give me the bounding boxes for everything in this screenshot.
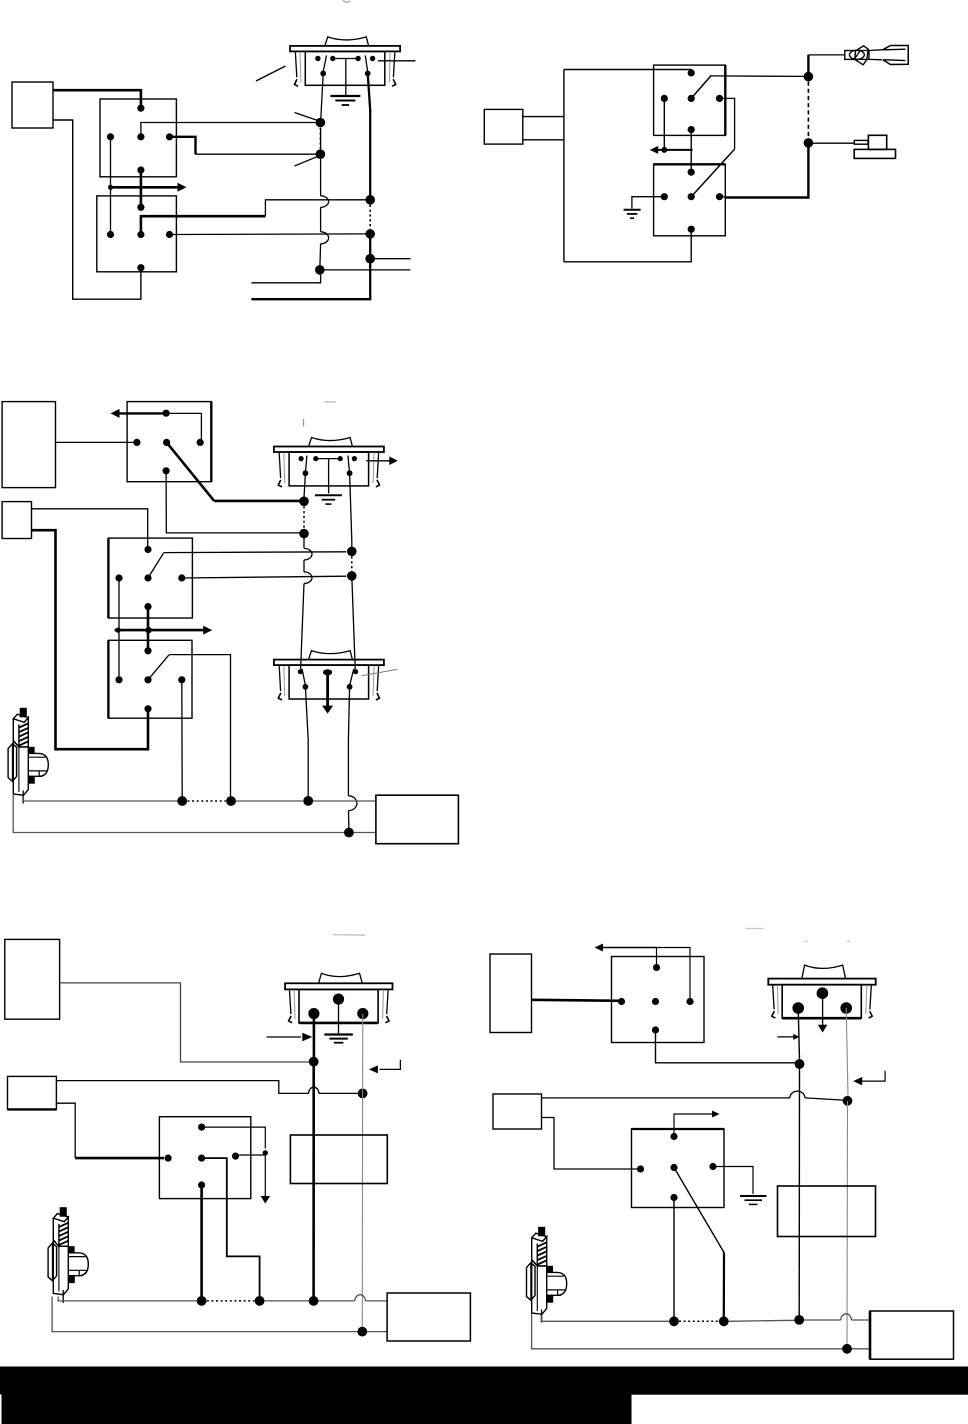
wire module4 to node [60, 983, 309, 1062]
wire1 D4 end [365, 1300, 387, 1302]
wire node5 stub left [251, 275, 320, 283]
wire battery to relay1 coil [53, 90, 141, 106]
node D4-6 [357, 1327, 367, 1337]
wire feed to relay K7 [32, 530, 149, 749]
wire feed5 to K10 [542, 1118, 641, 1170]
wire K7 common down [181, 680, 183, 797]
wire left column mid2 [320, 207, 322, 232]
wire hop D4 a [309, 1087, 319, 1093]
rocker SW2 pin bridge [316, 458, 340, 460]
wire SW5 left col lower [798, 1064, 800, 1316]
node D4-5 [309, 1296, 319, 1306]
wire2 D4 [52, 1297, 387, 1332]
wire battery stubs [523, 116, 564, 118]
wire K5 to node2 [166, 471, 300, 533]
wire K8 NO down [202, 1158, 260, 1296]
wire hop D3 a [304, 548, 312, 560]
arrow relay actuation [109, 186, 178, 189]
arrow into SW4 [267, 1036, 302, 1038]
wire SW5 right col [846, 1008, 848, 1096]
arrow rocker SW2 [366, 460, 391, 462]
rocker SW1 pins [315, 56, 320, 61]
dotted link right column [369, 205, 371, 229]
wire feed4 upper b [319, 1092, 358, 1094]
node D3-5 [303, 796, 313, 806]
wire SW5 left col [798, 1008, 799, 1060]
lock module box D5 [778, 1186, 876, 1237]
wire feed to relay K6 [32, 509, 148, 547]
node D3-1 [299, 497, 309, 507]
dotted wire1 D5 [679, 1320, 719, 1322]
wire1 D3 left [23, 796, 178, 801]
relay K9 pins [653, 964, 660, 971]
feed box 4 [8, 1076, 57, 1109]
wire SW2 right drop [350, 473, 352, 547]
rocker SW1 left contact [323, 56, 326, 72]
node D3-4 [347, 571, 357, 581]
arrow into SW4 right [369, 1065, 378, 1073]
node junction 5 [315, 265, 325, 275]
rocker SW4 ground lead [338, 999, 340, 1033]
dotted link D3 left [303, 506, 305, 529]
ground symbol SW1 [330, 95, 360, 97]
relay K1 box [100, 99, 176, 177]
wire feed5 long [542, 1097, 790, 1099]
wire SW2 left drop [304, 473, 305, 498]
relay K4 box [654, 164, 726, 236]
node D3-8 [344, 828, 354, 838]
wire right col to SW3 [352, 576, 355, 669]
ground symbol SW4 [324, 1033, 353, 1035]
wire to valet switch [808, 142, 854, 144]
wire relay4 ground lead [632, 197, 664, 209]
node junction 2 [316, 149, 326, 159]
rocker SW3 center pivot [323, 669, 332, 675]
wire1 D4 left [58, 1297, 197, 1301]
rocker switch SW4 body [285, 973, 392, 1023]
interface box D4 [387, 1293, 470, 1341]
ground symbol SW2 [315, 494, 342, 496]
wire relay3 arm to key node [711, 75, 804, 78]
arrow rocker SW3 down [326, 672, 329, 706]
rocker SW5 pins [817, 987, 829, 999]
wire relay1 common [170, 137, 196, 154]
wire relay3 common hook [720, 98, 735, 149]
wire node to relay4 common [725, 148, 808, 198]
footer bar full [0, 1367, 968, 1395]
callout line rocker [256, 66, 286, 81]
node D4-4 [255, 1296, 265, 1306]
wire K8 bottom down [200, 1185, 203, 1296]
node D5-3 [669, 1316, 679, 1326]
rocker switch SW5 body [768, 965, 875, 1018]
arrow relay K5 [118, 412, 167, 414]
wire right column upper [368, 73, 371, 195]
wire2 D3 [13, 795, 376, 833]
dotted wire1 D4 [207, 1300, 255, 1302]
wire feed4 lower [56, 1103, 75, 1158]
node D4-1 [309, 1057, 319, 1067]
rocker SW2 pins [299, 456, 304, 461]
wire relay2 NO to node [141, 216, 266, 234]
arrow relay K6K7 [115, 629, 204, 632]
wire SW4 left col [313, 1014, 316, 1058]
relay K5 pins [163, 410, 170, 417]
node junction 4 [365, 229, 375, 239]
mechanical link relays 2 [690, 130, 692, 173]
rocker SW3 pins [298, 669, 303, 674]
relay K8 pins [198, 1124, 205, 1131]
arrow K8 down [264, 1153, 266, 1197]
ignition key symbol [845, 46, 908, 65]
node junction 6 [365, 254, 375, 264]
wire K8 common stub [236, 1153, 266, 1155]
relay K9 box [612, 957, 705, 1043]
relay K5 arm to node [167, 442, 215, 501]
relay K7 box [108, 640, 192, 718]
arrow rocker SW5 down [822, 993, 824, 1025]
relay K6 box [108, 538, 192, 618]
wire K6 common to node4 [182, 576, 346, 578]
feed box [2, 502, 31, 539]
wire SW3 right down [348, 687, 349, 796]
node junction 3 [365, 195, 375, 205]
wire left col mid [303, 560, 305, 572]
wire hop over node wire B [321, 232, 329, 244]
wire battery to relay4 pin [564, 229, 691, 262]
rocker SW2 left contact [306, 456, 307, 471]
arrow into SW5 right [853, 1077, 862, 1086]
relay K5 box [127, 402, 211, 482]
node D5-4 [719, 1316, 729, 1326]
rocker switch SW1 body [290, 37, 400, 86]
node D3-2 [299, 529, 309, 539]
wire1 D4 mid [265, 1300, 309, 1302]
wire hop D3 c [348, 796, 357, 811]
wire SW5 right col lower [846, 1101, 849, 1345]
wire K5 hook [166, 413, 201, 442]
wire SW4 left col lower [312, 1062, 315, 1297]
mechanical link relays [140, 170, 143, 207]
mechanical link K6 K7 [147, 607, 150, 651]
scan mark D4 [333, 934, 365, 937]
relay K3 pins [688, 69, 695, 76]
arrow relay actuation 2 [656, 149, 693, 151]
relay K7 pins [144, 647, 151, 654]
scan mark D5 [746, 928, 764, 930]
wire key riser [807, 55, 809, 73]
wire left column upper [321, 73, 324, 122]
wire hop D3 b [304, 572, 312, 584]
relay K6 pins [144, 546, 151, 553]
node key junction [804, 72, 814, 82]
wire module to K5 [56, 441, 137, 443]
wire K10 arm down [723, 1253, 725, 1317]
rocker SW4 pins [333, 994, 344, 1005]
wire1 D3 mid [236, 800, 303, 802]
rocker switch SW2 body [274, 438, 384, 487]
valet switch symbol [854, 135, 895, 158]
footer bar left [0, 1393, 632, 1424]
callout line SW3 [362, 669, 398, 675]
dotted link D3 right [351, 556, 353, 571]
door lock actuator 3 [527, 1227, 567, 1322]
node D5-2 [843, 1096, 853, 1106]
node D3-6 [177, 796, 187, 806]
relay K7 switch arm [148, 655, 169, 680]
wire node5 stub right [320, 269, 411, 271]
feed box 5 [493, 1094, 542, 1129]
relay K4 pins [688, 169, 695, 176]
lock module box D4 [290, 1135, 387, 1184]
wire hop D5 a [790, 1091, 805, 1098]
interface box D5 [870, 1311, 954, 1359]
node D5-5 [794, 1315, 804, 1325]
relay K2 box [97, 196, 177, 272]
node D5-1 [795, 1059, 805, 1069]
lock module box D3 [376, 795, 459, 844]
arrow into SW5 [777, 1036, 793, 1038]
wire1 D5 mid [729, 1320, 795, 1321]
footer notch [0, 1394, 2, 1424]
node D3-7 [226, 796, 236, 806]
relay K3 switch arm [691, 75, 711, 98]
relay K10 pins [670, 1133, 677, 1140]
wire relay1 NO to node [141, 123, 316, 137]
rocker SW3 right contact [350, 669, 354, 685]
rocker SW2 right contact [348, 456, 350, 471]
arrow K9 left [601, 947, 657, 949]
wire SW4 right col [362, 1014, 364, 1094]
node D5-6 [842, 1344, 852, 1354]
dotted link nodes [319, 128, 321, 149]
wire K6 K7 left legs [118, 578, 120, 680]
wire1 D5 left [541, 1315, 669, 1321]
relay K10 switch arm [674, 1168, 724, 1253]
wire relay link left [110, 137, 112, 235]
wire K7 arm down [169, 655, 231, 797]
wire left column lower [319, 244, 322, 270]
wire K8 top hook [202, 1127, 266, 1148]
wire left column mid [320, 128, 322, 196]
wire1 D5 right [804, 1319, 841, 1321]
wire left col to hop1 [303, 534, 305, 549]
wire K9 top hook [657, 948, 691, 1002]
node K8 hook [263, 1150, 268, 1155]
node D4-2 [358, 1089, 368, 1099]
wire right column lower [251, 234, 370, 299]
wire K6 arm to node3 [163, 551, 346, 554]
callout line node1 [295, 113, 318, 121]
node D4-3 [197, 1296, 207, 1306]
relay K3 box [654, 65, 726, 135]
control module box [2, 402, 55, 488]
door lock actuator 2 [48, 1208, 88, 1303]
wire battery to relay3 coil [564, 70, 691, 73]
battery box [12, 82, 53, 128]
wire relay3 left leg [663, 98, 665, 149]
relay K6 switch arm [148, 553, 163, 578]
wire K10 bottom down [673, 1198, 675, 1317]
wire left col to SW3 [301, 584, 304, 670]
rocker SW1 ground lead [345, 59, 347, 96]
node switch junction [804, 138, 814, 148]
wire feed5 long b [805, 1098, 844, 1100]
ground symbol K10 [740, 1195, 767, 1197]
wire node6 stub right [370, 258, 410, 260]
battery box 5 [490, 954, 532, 1033]
node D3-3 [347, 547, 357, 557]
rocker SW1 right contact [365, 56, 367, 72]
rocker SW2 ground lead [328, 459, 330, 494]
dashed link key nodes [807, 82, 809, 139]
wire hop over node wire A [321, 196, 329, 208]
node junction 1 [316, 118, 326, 128]
wire battery to relay2 pin [53, 120, 141, 299]
dotted wire1 D3 [188, 800, 226, 802]
relay K2 pins [137, 204, 144, 211]
relay K1 pins [137, 105, 144, 112]
wire SW3 left to node5 [305, 687, 308, 797]
rocker SW3 left contact [302, 669, 305, 685]
control module box 4 [5, 939, 60, 1019]
scan mark D3 [325, 401, 336, 403]
wire feed4 upper [56, 1081, 308, 1094]
rocker switch SW3 body [274, 651, 384, 700]
rocker SW1 pin bridge [333, 58, 358, 60]
wire2 D5 [532, 1314, 869, 1349]
battery box 2 [484, 109, 523, 144]
wire rocker SW1 right stub [378, 60, 416, 62]
wire1 D5 end [851, 1319, 869, 1321]
wire relay2 common to node [170, 233, 367, 236]
relay K8 box [159, 1117, 250, 1199]
scan mark top [343, 0, 350, 2]
wire hop D5 b [841, 1314, 852, 1320]
wire1 D3 right [313, 800, 376, 802]
wire K9 bottom to node [656, 1030, 796, 1063]
wire hop D4 b [355, 1295, 366, 1301]
callout line node2 [295, 157, 318, 166]
ground symbol 2 [624, 209, 641, 211]
wire SW3 right to wire2 [348, 811, 350, 829]
wire SW4 right col lower [361, 1093, 363, 1327]
relay K10 box [632, 1129, 725, 1208]
wire K10 ground lead [713, 1167, 753, 1195]
wire1 D4 right [319, 1300, 355, 1302]
wire battery5 to K9 [532, 1000, 622, 1001]
door lock actuator 1 [8, 708, 48, 803]
relay K4 switch arm [691, 149, 734, 197]
arrow K10 up [674, 1114, 714, 1137]
